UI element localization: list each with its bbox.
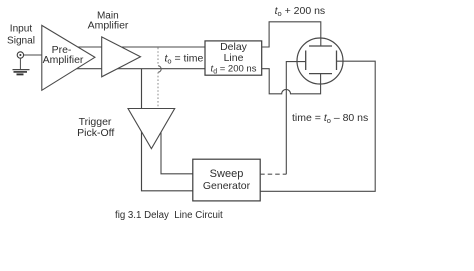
delay line U1 bbox=[205, 41, 262, 76]
svg-text:Trigger: Trigger bbox=[79, 116, 112, 128]
svg-text:to = time: to = time bbox=[165, 52, 204, 65]
svg-text:to + 200 ns: to + 200 ns bbox=[275, 5, 326, 18]
label Input Signal bbox=[7, 24, 35, 47]
node label t_o + 200 ns bbox=[275, 5, 326, 18]
wire top differential line pre-amp to delay line bbox=[70, 46, 205, 48]
caption fig 3.1 Delay Line Circuit bbox=[115, 210, 223, 221]
wire terminal to ground bbox=[19, 58, 21, 69]
svg-text:time = to – 80 ns: time = to – 80 ns bbox=[292, 112, 368, 125]
wire delay line bottom output to CRT lower deflection plate (hops sweep wire) bbox=[262, 69, 321, 94]
wire tap from bottom line down past trigger pick-off to sweep generator (lower) bbox=[142, 69, 193, 191]
wire delay line top output to CRT upper deflection plate bbox=[262, 22, 321, 47]
ground bbox=[13, 70, 30, 75]
wire tap from top line down to trigger pick-off (dotted, hops bottom line) bbox=[158, 48, 161, 118]
svg-text:Pick-Off: Pick-Off bbox=[77, 127, 114, 139]
svg-text:Line: Line bbox=[224, 52, 244, 64]
wire input terminal to pre-amplifier bbox=[24, 54, 42, 56]
main amplifier A2 bbox=[88, 11, 141, 77]
wire sweep generator output to CRT right deflection plate bbox=[260, 61, 375, 191]
input terminal bbox=[17, 52, 23, 58]
sweep generator U2 bbox=[193, 159, 260, 201]
wire trigger pick-off output to sweep generator (upper) bbox=[161, 118, 193, 174]
svg-text:Signal: Signal bbox=[7, 36, 35, 47]
wire bottom differential line pre-amp to delay line bbox=[70, 68, 205, 70]
pre-amplifier A1 bbox=[42, 25, 95, 90]
node label time = t_o - 80 ns bbox=[292, 112, 368, 125]
svg-text:Generator: Generator bbox=[203, 180, 251, 192]
node label t_o = time bbox=[165, 52, 204, 65]
svg-text:td = 200 ns: td = 200 ns bbox=[211, 64, 257, 76]
trigger pick-off A3 bbox=[77, 109, 175, 149]
svg-text:Amplifier: Amplifier bbox=[43, 54, 84, 66]
svg-text:Amplifier: Amplifier bbox=[88, 19, 129, 31]
svg-text:fig 3.1 Delay Line Circuit: fig 3.1 Delay Line Circuit bbox=[115, 210, 223, 221]
wire sweep generator output to CRT left deflection plate (dashed stub) bbox=[260, 62, 306, 175]
svg-text:Input: Input bbox=[10, 24, 33, 35]
svg-text:Sweep: Sweep bbox=[210, 168, 244, 180]
CRT V1 bbox=[297, 38, 343, 84]
